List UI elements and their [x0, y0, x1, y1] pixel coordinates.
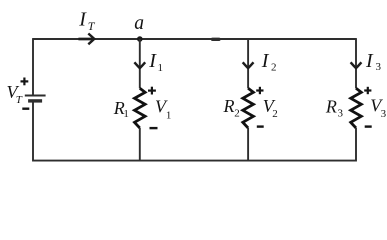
battery plus sign [21, 78, 29, 86]
svg-text:a: a [134, 13, 144, 34]
svg-text:1: 1 [166, 109, 172, 121]
wire left lower [32, 101, 34, 162]
battery V_T top plate [25, 95, 46, 97]
svg-text:T: T [88, 19, 96, 33]
label I_2 [261, 50, 277, 74]
svg-text:R: R [223, 96, 235, 116]
V1 minus sign [150, 127, 158, 129]
svg-text:I: I [261, 50, 270, 72]
V2 minus sign [257, 125, 264, 127]
wire bottom [33, 160, 356, 162]
node a dot [137, 36, 143, 42]
label R_2 [223, 96, 240, 120]
svg-text:I: I [148, 50, 157, 72]
resistor R1 zigzag [135, 88, 146, 128]
svg-text:3: 3 [376, 61, 382, 73]
svg-text:3: 3 [338, 108, 344, 120]
label R_1 [113, 98, 129, 120]
V3 plus sign [364, 87, 371, 94]
label I_T [78, 9, 96, 33]
label V_3 [370, 96, 386, 120]
svg-text:3: 3 [381, 108, 387, 120]
svg-text:1: 1 [158, 62, 164, 74]
label V_2 [263, 96, 278, 120]
resistor R2 zigzag [243, 88, 254, 128]
wire branch1 lower [139, 128, 141, 162]
wire right upper [355, 38, 357, 88]
svg-text:1: 1 [123, 108, 128, 120]
label V_T [7, 82, 23, 106]
wire branch1 upper [139, 39, 141, 88]
label I_3 [365, 50, 382, 73]
wire top [33, 38, 356, 40]
V1 plus sign [148, 87, 156, 95]
svg-text:2: 2 [271, 62, 277, 74]
svg-text:T: T [16, 94, 23, 106]
svg-text:2: 2 [234, 107, 240, 119]
resistor R3 zigzag [351, 88, 362, 128]
V2 plus sign [256, 87, 263, 94]
label R_3 [325, 97, 344, 120]
svg-text:I: I [365, 50, 374, 72]
current arrow I_3 [351, 62, 362, 68]
current arrow I_2 [243, 62, 254, 68]
wire right lower [355, 128, 357, 162]
svg-text:R: R [325, 97, 337, 117]
current arrow I_1 [134, 62, 145, 68]
svg-text:I: I [78, 9, 87, 31]
current arrow I_T [78, 34, 94, 45]
svg-text:2: 2 [272, 108, 278, 120]
label I_1 [148, 50, 163, 74]
wire branch2 upper [247, 39, 249, 88]
label V_1 [155, 96, 171, 121]
wire left upper [32, 38, 34, 95]
battery minus sign [22, 107, 29, 109]
V3 minus sign [365, 125, 372, 127]
wire junction smudge [213, 38, 220, 41]
wire branch2 lower [247, 128, 249, 162]
battery V_T bottom plate [28, 99, 42, 102]
